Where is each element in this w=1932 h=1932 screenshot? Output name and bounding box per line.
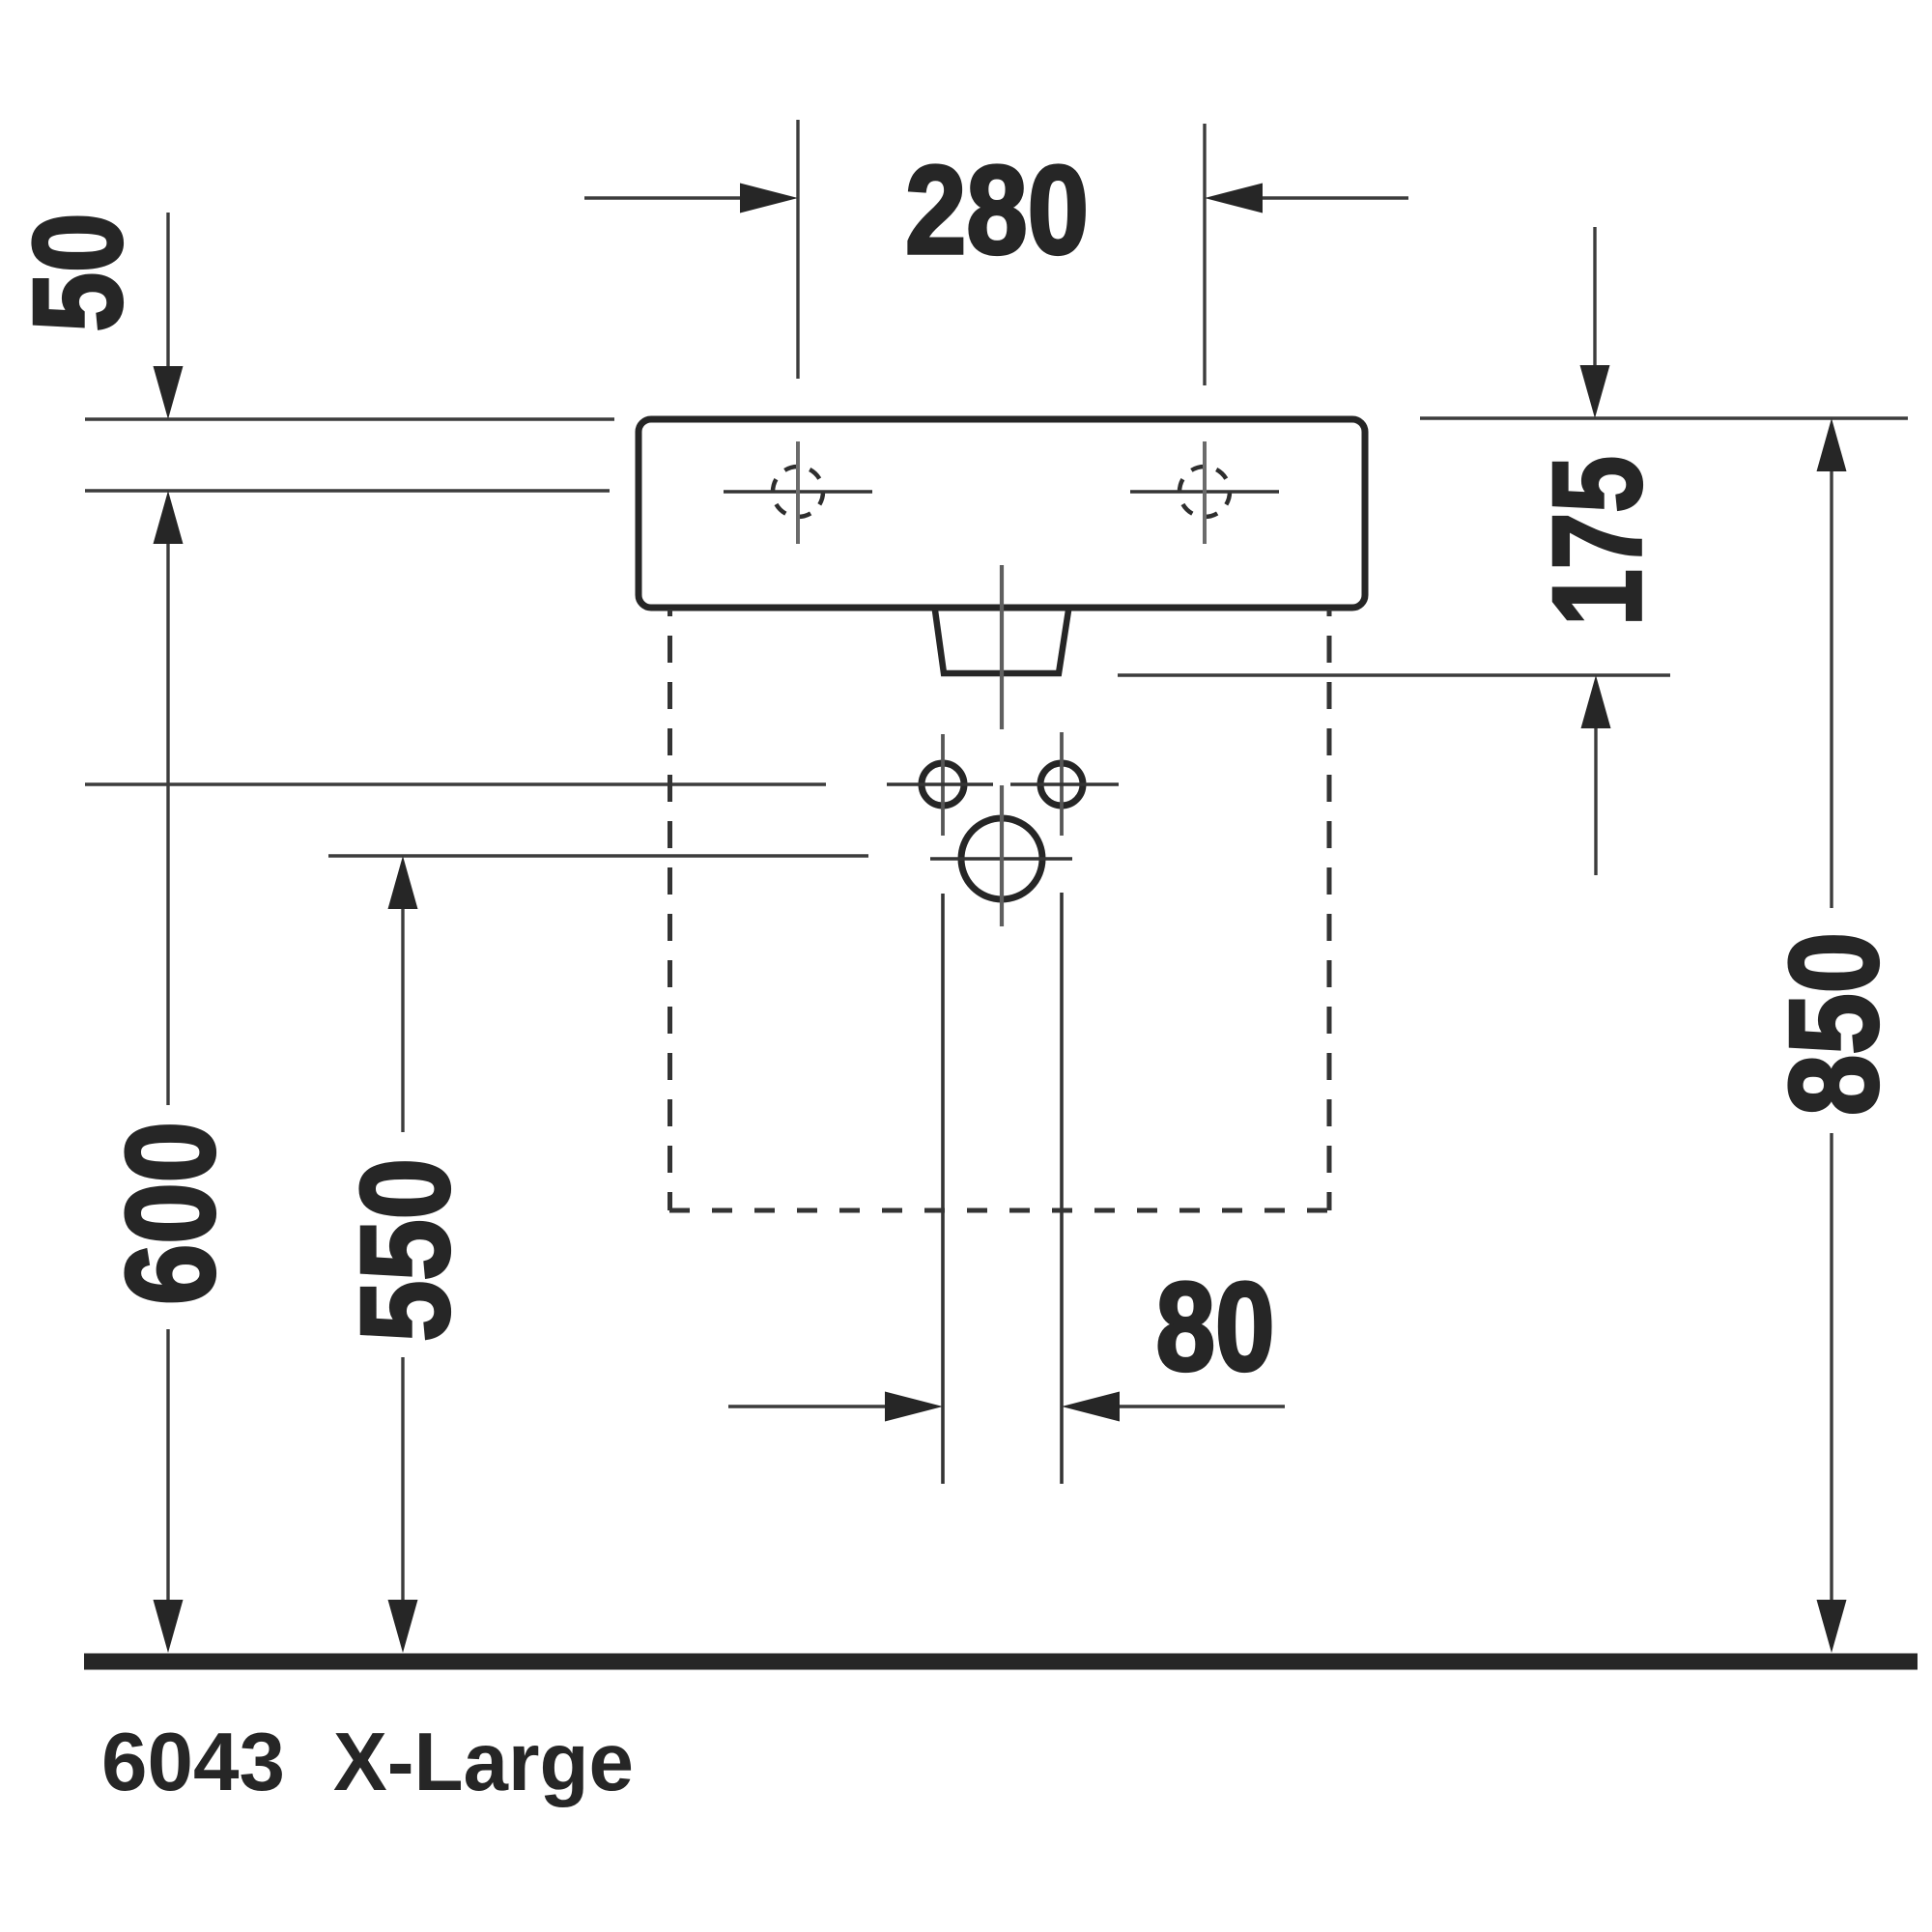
mounting hole right horizontal centerline: [1010, 782, 1119, 785]
svg-text:280: 280: [905, 139, 1089, 280]
dim 600: shaft upper: [166, 544, 169, 1105]
overflow outlet trapezoid: [935, 611, 1068, 673]
dim 50: down arrowhead: [154, 366, 184, 419]
hidden pedestal outline right dashed: [1327, 610, 1332, 1210]
dim 550: shaft lower: [401, 1357, 404, 1604]
wall reference line top left: [85, 417, 614, 420]
dim 80: left arrow shaft: [728, 1405, 889, 1407]
svg-text:600: 600: [99, 1122, 241, 1305]
dim 280: right arrow shaft: [1259, 196, 1408, 199]
svg-text:50: 50: [7, 213, 148, 332]
dim 550: up arrowhead at drain line: [388, 856, 418, 909]
dim 80: arrowhead pointing left: [1062, 1392, 1120, 1422]
faucet hole left: horizontal centerline: [724, 490, 872, 493]
drain hole circle: [961, 818, 1042, 899]
dim 850: shaft lower: [1830, 1133, 1833, 1604]
drain reference line 550: [328, 854, 868, 857]
drain hole horizontal centerline: [930, 857, 1072, 860]
faucet axis reference line left: [85, 489, 610, 492]
mounting hole right vertical centerline: [1060, 732, 1064, 836]
supply line left (80 dim boundary): [941, 894, 945, 1484]
small holes reference line left: [85, 782, 826, 785]
svg-text:550: 550: [334, 1158, 475, 1342]
dim 50: down arrow shaft: [166, 213, 169, 367]
overflow outlet axis line: [1000, 565, 1004, 729]
hidden pedestal outline bottom dashed: [669, 1208, 1329, 1213]
faucet hole left: dashed circle: [773, 467, 823, 517]
svg-text:80: 80: [1156, 1256, 1275, 1397]
dim 600: shaft lower: [166, 1329, 169, 1604]
dim 175: up arrowhead at overflow line: [1581, 675, 1611, 728]
dim 175: lower arrow shaft: [1594, 728, 1597, 875]
svg-text:6043: 6043: [101, 1717, 285, 1808]
dim 850: up arrowhead at wall line: [1817, 418, 1847, 471]
dim 80: arrowhead pointing right: [885, 1392, 943, 1422]
svg-text:850: 850: [1763, 932, 1904, 1116]
dim 280: left boundary line: [796, 120, 799, 379]
dim 850: down arrowhead at floor: [1817, 1600, 1847, 1653]
dim 280: left arrow shaft: [584, 196, 744, 199]
faucet hole left: vertical centerline: [796, 441, 800, 544]
dim 280: left arrowhead pointing right: [740, 184, 798, 213]
svg-text:X-Large: X-Large: [333, 1717, 634, 1808]
mounting hole left circle: [922, 763, 964, 806]
drain hole vertical centerline: [1000, 785, 1004, 926]
svg-text:175: 175: [1526, 456, 1667, 626]
hidden pedestal outline left dashed: [668, 610, 672, 1210]
faucet hole right: dashed circle: [1179, 467, 1230, 517]
dim 550: down arrowhead at floor: [388, 1600, 418, 1653]
floor line: [84, 1654, 1918, 1670]
dim 175: down arrowhead at wall line: [1580, 365, 1610, 418]
dim 550: shaft upper: [401, 909, 404, 1132]
faucet hole right: horizontal centerline: [1130, 490, 1279, 493]
dim 850: shaft upper: [1830, 471, 1833, 908]
overflow bottom reference line 175: [1118, 673, 1670, 676]
dim 80: right arrow shaft: [1116, 1405, 1285, 1407]
dim 600/50: up arrowhead at faucet line: [154, 491, 184, 544]
dim 280: right arrowhead pointing left: [1205, 184, 1263, 213]
wall reference line top right: [1420, 416, 1908, 419]
mounting hole left vertical centerline: [941, 734, 945, 836]
supply line right (80 dim boundary): [1060, 893, 1064, 1484]
sink body: [639, 419, 1365, 608]
dim 175: upper arrow shaft: [1593, 227, 1596, 366]
mounting hole left horizontal centerline: [887, 782, 993, 785]
dim 600: down arrowhead at floor: [154, 1600, 184, 1653]
faucet hole right: vertical centerline: [1203, 441, 1207, 544]
mounting hole right circle: [1040, 763, 1083, 806]
dim 280: right boundary line: [1203, 124, 1206, 385]
